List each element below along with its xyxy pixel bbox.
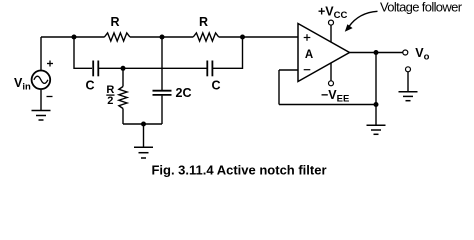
svg-text:A: A [305, 49, 313, 61]
wire inverting input [279, 69, 298, 71]
node twin-T output junction [240, 35, 245, 40]
resistor R3 R/2 [119, 68, 127, 124]
wire top rail segment 3 [219, 36, 298, 38]
wire top rail segment 1 [41, 36, 105, 38]
node input junction [72, 35, 77, 40]
wire feedback vertical [375, 53, 377, 105]
resistor R2 [193, 33, 219, 41]
svg-text:Voltage follower: Voltage follower [380, 0, 463, 15]
wire C1 to node M2 [98, 67, 123, 69]
capacitor C4 2C branch from M1 [153, 37, 172, 124]
source plus polarity [47, 61, 53, 67]
supply +VCC terminal [330, 26, 332, 43]
svg-text:2: 2 [107, 95, 113, 107]
wire input drop to cap row [74, 37, 92, 68]
op-amp U1 [298, 24, 350, 82]
node M1 junction [160, 35, 165, 40]
terminal Vo return [406, 67, 411, 72]
node feedback junction [374, 102, 379, 107]
wire feedback bottom [279, 104, 376, 106]
resistor R1 [104, 33, 129, 41]
wire C2 up to twin-T output node [212, 37, 242, 68]
node bottom ground junction [141, 122, 146, 127]
ground output [367, 125, 386, 134]
wire M2 to C2 crossover over 2C branch [123, 67, 207, 69]
wire top rail segment 2 [130, 36, 193, 38]
node M2 junction [121, 66, 126, 71]
wire junction to ground [143, 124, 145, 147]
ground source [32, 111, 51, 121]
ground twin-T [134, 147, 153, 158]
wire feedback left vertical [278, 70, 280, 105]
node output junction [374, 50, 379, 55]
terminal Vo [403, 50, 408, 55]
supply -VEE terminal [330, 63, 332, 81]
svg-text:C: C [211, 79, 220, 93]
annotation arrow voltage follower [345, 11, 378, 32]
wire source to ground [40, 90, 42, 111]
label R/2 [106, 84, 114, 107]
wire output node to ground [375, 105, 377, 126]
svg-text:C: C [85, 79, 94, 93]
wire Vo return to ground [407, 72, 409, 92]
svg-text:R: R [199, 15, 208, 29]
wire output [350, 52, 403, 54]
svg-text:R: R [110, 15, 119, 29]
wire bottom rail [123, 123, 162, 125]
wire source to top rail [40, 37, 42, 70]
capacitor C2 [207, 61, 212, 77]
svg-text:Fig. 3.11.4 Active notch filte: Fig. 3.11.4 Active notch filter [151, 163, 326, 178]
source minus polarity [47, 96, 53, 98]
capacitor C1 [93, 61, 98, 77]
AC source VS [32, 71, 51, 90]
ground Vo return [399, 92, 418, 101]
svg-text:2C: 2C [176, 86, 192, 100]
